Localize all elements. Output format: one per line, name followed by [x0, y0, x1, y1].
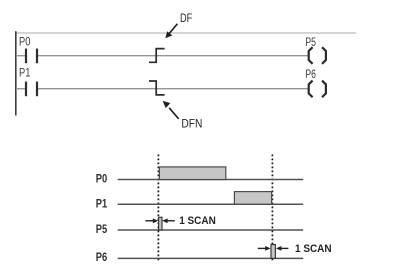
svg-text:P5: P5: [96, 222, 108, 236]
wire rung2 rail to contact P1: [16, 88, 25, 90]
DF edge-detect symbol (rising edge) on rung1: [149, 49, 165, 63]
P0 pulse (high during scan window): [159, 167, 225, 180]
P6 pulse width arrow left: [258, 246, 271, 251]
DFN edge-detect symbol (falling edge) on rung2: [149, 81, 165, 95]
svg-text:DFN: DFN: [181, 118, 202, 130]
coil P5: [309, 47, 326, 64]
ladder top border wire: [15, 32, 356, 34]
svg-text:P0: P0: [19, 35, 31, 49]
P5 one-scan pulse: [159, 217, 162, 230]
contact P0: [26, 49, 37, 64]
timing baseline P6: [118, 257, 304, 259]
svg-text:1 SCAN: 1 SCAN: [179, 215, 216, 227]
DFN arrow pointing to symbol: [163, 101, 179, 119]
svg-text:P0: P0: [96, 171, 108, 185]
svg-text:P1: P1: [19, 66, 31, 80]
timing baseline P1: [118, 203, 304, 205]
timing baseline P0: [118, 179, 304, 181]
timing baseline P5: [118, 229, 304, 231]
svg-text:1 SCAN: 1 SCAN: [295, 243, 332, 255]
P1 pulse: [234, 192, 271, 205]
wire rung1 rail to contact P0: [16, 55, 25, 57]
P6 one-scan pulse: [271, 245, 275, 259]
svg-text:P1: P1: [96, 196, 108, 210]
contact P1: [26, 82, 37, 97]
wire rung2 contact P1 to coil P6: [38, 88, 309, 90]
DF arrow pointing to symbol: [165, 24, 177, 39]
P6 pulse width arrow right: [276, 246, 288, 251]
P5 pulse width arrow right: [162, 218, 175, 223]
scan boundary dotted line 1: [157, 155, 159, 262]
svg-text:P6: P6: [305, 67, 316, 81]
svg-text:P6: P6: [96, 250, 108, 264]
coil P6: [309, 81, 326, 98]
svg-text:P5: P5: [305, 35, 316, 49]
P5 pulse width arrow left: [145, 218, 158, 223]
svg-text:DF: DF: [180, 13, 192, 25]
left power rail: [15, 31, 17, 115]
wire rung1 contact P0 to coil P5: [38, 55, 309, 57]
scan boundary dotted line 2: [271, 155, 273, 262]
